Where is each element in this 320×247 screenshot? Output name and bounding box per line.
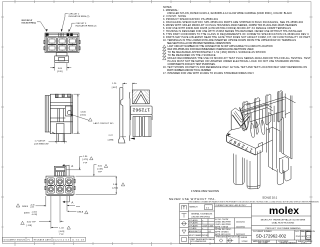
- cavity grid 3 cols x 2 rows: [48, 38, 77, 51]
- 172962 text band: [131, 106, 153, 115]
- legs: [133, 117, 141, 137]
- svg-text:APPR: BPOLICOR: APPR: BPOLICOR: [215, 233, 231, 236]
- fin 1: [243, 101, 248, 131]
- cavity squares + circles row1: [47, 178, 73, 193]
- col1 symbols: [181, 206, 187, 242]
- right flange: [268, 113, 270, 167]
- col3/4: [215, 206, 252, 208]
- leader: first circuit rib: [37, 22, 48, 32]
- svg-text:DIM B: DIM B: [22, 206, 29, 208]
- svg-text:1.7 LATCH: 1.7 LATCH: [35, 140, 46, 143]
- extension line + arrow above section view: [132, 83, 137, 93]
- svg-text:±: ±: [202, 223, 203, 225]
- left V-latch block: [231, 103, 250, 130]
- svg-text:INDICATOR RIBS (2): INDICATOR RIBS (2): [69, 15, 90, 18]
- body: [46, 176, 74, 195]
- circuit 3 indicator ribs: [67, 33, 70, 36]
- svg-text:SERIES: SERIES: [241, 237, 248, 239]
- svg-text:DIM A: DIM A: [77, 211, 83, 214]
- svg-text:SD-172962-002: SD-172962-002: [256, 234, 287, 239]
- col2 internals: [188, 210, 214, 212]
- svg-text:172962: 172962: [242, 241, 248, 243]
- svg-text:±3°: ±3°: [209, 231, 212, 233]
- svg-text:11:32:58: 11:32:58: [72, 239, 84, 241]
- section arrow bottom-left of section view: [130, 138, 135, 140]
- svg-text:MM/INCH: MM/INCH: [190, 207, 199, 209]
- svg-text:1 OF 1: 1 OF 1: [301, 242, 307, 244]
- svg-text:SEE CHART: SEE CHART: [258, 241, 269, 244]
- rear view dims right side: [67, 156, 117, 194]
- svg-text:NEVER USE WITHOUT TPA.: NEVER USE WITHOUT TPA.: [169, 197, 216, 201]
- svg-text:DUAL ROW HOUSING: DUAL ROW HOUSING: [272, 221, 295, 224]
- svg-text:DOCUMENT STATUS: DOCUMENT STATUS: [4, 238, 26, 241]
- svg-text:172962: 172962: [132, 106, 150, 112]
- svg-text:[DIM B: [DIM B: [24, 213, 30, 215]
- svg-text:[.118]: [.118]: [26, 225, 32, 227]
- legs: [234, 154, 245, 185]
- side bumps: [45, 179, 46, 183]
- DIM A callout: [67, 196, 80, 212]
- svg-text:THIRD ANGLE PROJECTION: THIRD ANGLE PROJECTION: [216, 236, 241, 239]
- svg-text:2 PLACES: 2 PLACES: [189, 224, 198, 227]
- svg-text:[.120]: [.120]: [57, 71, 63, 73]
- bottom TPA tab: [56, 53, 67, 56]
- svg-text:INDICATOR RIB (1): INDICATOR RIB (1): [22, 22, 37, 25]
- svg-text:3.00 TYP: 3.00 TYP: [27, 222, 37, 224]
- 172962 text band: [227, 135, 256, 155]
- svg-text:2022/02/21: 2022/02/21: [236, 221, 245, 223]
- svg-text:TYP: TYP: [83, 162, 88, 164]
- first circuit indicator rib: [46, 33, 49, 35]
- svg-text:INDICATOR RIBS (2): INDICATOR RIBS (2): [76, 25, 97, 28]
- svg-text:1 PLACE: 1 PLACE: [189, 227, 197, 230]
- svg-text:TYP: TYP: [59, 234, 64, 236]
- leader: circuit 2 ribs: [61, 14, 68, 32]
- svg-text:172962-0602 SHOWN: 172962-0602 SHOWN: [191, 189, 219, 193]
- V latch bold strokes: [232, 107, 249, 128]
- TPA bump on top: [54, 166, 66, 176]
- svg-text:GENERAL TOLERANCES: GENERAL TOLERANCES: [191, 213, 213, 216]
- circuit 2 indicator ribs: [58, 33, 60, 36]
- svg-text:[.041]: [.041]: [59, 231, 65, 233]
- svg-text:INTO DIMENSIONS: INTO DIMENSIONS: [190, 241, 207, 243]
- svg-text:A: A: [71, 164, 73, 168]
- leader: circuit 3 ribs: [68, 23, 75, 32]
- svg-text:[.075]: [.075]: [83, 159, 89, 161]
- fin 2: [254, 98, 259, 129]
- svg-text:3 PLACES: 3 PLACES: [189, 222, 198, 225]
- svg-text:±: ±: [202, 220, 203, 222]
- svg-text:±0.08: ±0.08: [202, 225, 206, 227]
- svg-text:LAST CIRCUIT NO: LAST CIRCUIT NO: [93, 122, 113, 125]
- svg-text:CURRENT REV DESC: ADD NOTE 17: CURRENT REV DESC: ADD NOTE 17: [215, 204, 246, 207]
- svg-text:[.551]: [.551]: [80, 115, 86, 117]
- svg-text:[.047]: [.047]: [112, 87, 118, 89]
- projection symbols: [219, 239, 233, 242]
- spring teardrops between fins: [251, 123, 255, 138]
- svg-text:PRODUCT CUSTOMER DRAWING: PRODUCT CUSTOMER DRAWING: [266, 227, 301, 230]
- fin 4: [277, 91, 282, 123]
- svg-text:4 PLACES: 4 PLACES: [189, 219, 198, 222]
- leader LAST CIRCUIT NO: [71, 114, 93, 121]
- right section rows: [252, 215, 312, 217]
- border tick marks bottom: [15, 242, 210, 246]
- svg-text:MUST REMAIN WITHIN: MUST REMAIN WITHIN: [189, 234, 209, 237]
- svg-text:RELEASE DATE: RELEASE DATE: [34, 238, 52, 241]
- svg-text:[.118]: [.118]: [97, 168, 103, 170]
- svg-text:GENERAL MARKET: GENERAL MARKET: [280, 241, 297, 244]
- svg-text:C1: C1: [306, 235, 311, 239]
- svg-text:[.089]: [.089]: [108, 139, 114, 141]
- top rails (back wall top edges): [241, 97, 296, 111]
- right back wall: [279, 93, 281, 152]
- fin 3: [266, 94, 271, 125]
- svg-text:-0.010]: -0.010]: [32, 214, 38, 216]
- svg-text:2022/10/13: 2022/10/13: [53, 239, 69, 241]
- svg-text:molex: molex: [269, 206, 299, 217]
- back edges between fins: [250, 113, 252, 129]
- svg-text:±.003: ±.003: [209, 225, 213, 227]
- rear view dims left side: [16, 204, 20, 207]
- svg-text:P1: P1: [28, 239, 30, 241]
- svg-text:±: ±: [202, 228, 203, 230]
- svg-text:A: A: [71, 201, 73, 205]
- section A arrows: [62, 164, 69, 176]
- svg-text:TYP: TYP: [98, 171, 103, 173]
- svg-text:17. INTENDED FOR USE WITH 20 A: 17. INTENDED FOR USE WITH 20 AWG TO 26 A…: [163, 72, 254, 75]
- svg-text:14.00: 14.00: [80, 111, 86, 113]
- svg-text:-0.25: -0.25: [30, 207, 34, 209]
- svg-text:SCALE 10:1: SCALE 10:1: [262, 196, 277, 200]
- svg-text:(UNLESS SPECIFIED): (UNLESS SPECIFIED): [192, 216, 211, 218]
- rails crossing fins: [243, 104, 272, 111]
- svg-text:[.07] WINDOW: [.07] WINDOW: [34, 144, 49, 146]
- border tick marks top: [15, 0, 288, 3]
- svg-text:MICRO-FIT TPA RECEPTACLE GLOW: MICRO-FIT TPA RECEPTACLE GLOW WIRE: [261, 218, 306, 221]
- dimension 3.05 [.120] below front view: [50, 63, 71, 70]
- svg-text:ANGULAR TOL: ANGULAR TOL: [189, 230, 202, 233]
- col1 rows: [180, 211, 189, 213]
- body under latches: [227, 130, 232, 136]
- X marks at crossings: [55, 184, 66, 186]
- dim 14.00 [.551] right of side view: [74, 94, 80, 134]
- side bumps: [44, 40, 45, 43]
- svg-text:[.200]: [.200]: [112, 188, 118, 190]
- svg-text:2022/09/02: 2022/09/02: [236, 226, 245, 228]
- svg-text:PSD: PSD: [296, 236, 301, 238]
